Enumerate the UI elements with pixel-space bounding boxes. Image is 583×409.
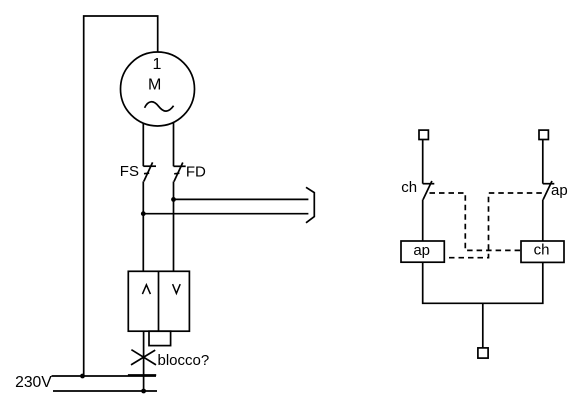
svg-text:230V: 230V <box>15 374 52 391</box>
svg-text:ch: ch <box>534 242 550 259</box>
svg-text:blocco?: blocco? <box>158 352 210 369</box>
svg-text:FD: FD <box>186 164 206 181</box>
svg-text:ap: ap <box>551 182 568 199</box>
svg-text:M: M <box>148 77 161 94</box>
svg-text:1: 1 <box>153 56 162 73</box>
svg-text:FS: FS <box>120 163 139 180</box>
svg-text:ch: ch <box>401 179 417 196</box>
svg-text:ap: ap <box>413 242 430 259</box>
